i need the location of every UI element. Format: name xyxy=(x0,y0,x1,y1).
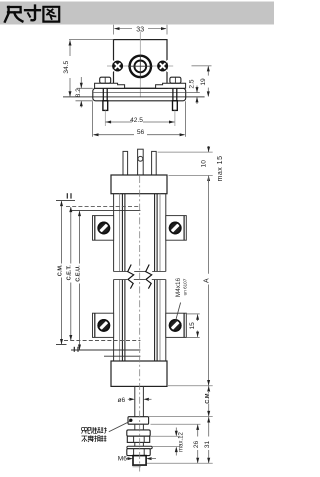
ring bottom extension xyxy=(151,423,201,425)
flange bottom ext left xyxy=(76,100,93,102)
svg-text:8.2: 8.2 xyxy=(75,88,82,97)
upper right screw xyxy=(169,222,182,235)
centerline extension dash right xyxy=(192,65,212,67)
mounting surface reference line xyxy=(63,96,205,98)
right bolt extension line xyxy=(174,110,176,126)
dim 2.5 lines xyxy=(186,86,200,105)
dim 33 lines+arrows xyxy=(114,25,168,35)
svg-text:M4x16: M4x16 xyxy=(175,277,182,297)
break lower cut line xyxy=(114,279,166,281)
dim 8.2 lines xyxy=(80,77,83,108)
middle terminal pin xyxy=(138,149,144,175)
housing body rect (top view) xyxy=(114,40,168,89)
shaft lines xyxy=(134,386,136,416)
dim 26 xyxy=(197,424,199,436)
top cap xyxy=(111,175,167,194)
dim A line xyxy=(208,176,210,274)
svg-text:2.5: 2.5 xyxy=(189,79,196,88)
break upper cut line xyxy=(114,271,166,273)
dim 31 xyxy=(208,417,210,437)
title text 尺寸图 (drawn strokes) xyxy=(5,6,59,22)
limit ring xyxy=(128,417,149,425)
svg-text:C.E.U.: C.E.U. xyxy=(75,265,81,282)
svg-text:C.E.T.: C.E.T. xyxy=(67,265,73,281)
cap top extension line xyxy=(169,175,213,177)
note leader xyxy=(109,421,130,431)
svg-text:max.12: max.12 xyxy=(179,432,185,452)
washer xyxy=(127,446,152,449)
note line1 界限螺钉 xyxy=(82,427,107,433)
svg-text:C.M.: C.M. xyxy=(205,391,211,403)
dim 19 lines xyxy=(207,66,210,97)
svg-text:31: 31 xyxy=(204,441,211,449)
stud bottom extension xyxy=(147,462,213,464)
M6 threaded stud xyxy=(133,456,146,465)
lower right bracket xyxy=(166,313,187,337)
CET dashed line bottom xyxy=(64,340,140,342)
left bolt stud below flange xyxy=(103,101,108,111)
left clamp plate xyxy=(95,83,125,88)
CEU leader line xyxy=(79,211,81,263)
CM leader line xyxy=(61,201,63,263)
lower right screw xyxy=(169,319,182,332)
upper left bracket xyxy=(93,216,114,241)
right screw circle (top view) xyxy=(157,60,168,71)
dim 10 lines xyxy=(207,146,210,183)
bushing crosshair xyxy=(128,65,153,67)
CM bottom tick xyxy=(56,344,67,346)
CEU solid line top xyxy=(71,210,140,212)
svg-text:34.5: 34.5 xyxy=(63,60,70,73)
ring top extension xyxy=(149,416,213,418)
upper right bracket xyxy=(166,216,187,241)
hex nut 1 xyxy=(127,430,150,436)
left bolt head xyxy=(100,77,111,83)
svg-text:10: 10 xyxy=(200,160,207,168)
limit ring dot xyxy=(129,419,132,422)
dim 42.5 line xyxy=(105,121,175,124)
dim max12 xyxy=(175,428,177,436)
svg-text:ø6: ø6 xyxy=(117,397,125,404)
bushing inner circle xyxy=(134,61,146,73)
CET leader line xyxy=(70,207,72,263)
left bolt shaft lines xyxy=(102,83,104,101)
nut mid extension xyxy=(150,435,180,437)
CEU solid line bottom xyxy=(71,349,140,351)
flange bar (rounded) xyxy=(93,88,186,101)
svg-text:un 6107: un 6107 xyxy=(182,278,187,295)
svg-text:19: 19 xyxy=(200,78,207,86)
extra travel line bottom xyxy=(104,355,140,357)
svg-text:42.5: 42.5 xyxy=(130,117,143,124)
cap bottom extension line xyxy=(167,385,213,387)
note line2 不要触摸 xyxy=(82,435,107,442)
left bolt extension line xyxy=(104,110,106,126)
body vertical lines lower xyxy=(114,280,166,362)
right clamp plate xyxy=(156,83,186,88)
right terminal pin xyxy=(152,151,157,175)
dim 56 lines xyxy=(93,101,186,137)
left terminal pin xyxy=(123,151,128,175)
bushing outer circle xyxy=(130,56,151,77)
washer top extension xyxy=(152,446,180,448)
lower left bracket xyxy=(93,313,114,337)
svg-text:max 15: max 15 xyxy=(217,156,224,182)
CET dashed line top xyxy=(66,206,140,208)
vertical centerline xyxy=(139,32,141,98)
right bolt shaft lines xyxy=(172,83,174,101)
dim 15 lines xyxy=(186,314,199,338)
dim phi6 arrows xyxy=(128,398,152,401)
svg-text:M6: M6 xyxy=(118,455,127,462)
hex nut 2 xyxy=(127,449,150,456)
dim 34.5 lines xyxy=(69,40,114,97)
dim CM right xyxy=(208,386,210,392)
flange inner line xyxy=(93,92,185,94)
right bolt head xyxy=(170,77,181,83)
front view dashed centerline xyxy=(139,176,141,472)
header grey title band xyxy=(0,2,274,25)
left screw circle (top view) xyxy=(112,60,123,71)
body vertical lines upper xyxy=(114,194,166,272)
svg-text:26: 26 xyxy=(193,441,200,449)
break zigzag left xyxy=(128,265,134,289)
middle pin circle xyxy=(138,156,143,161)
bottom zero marks xyxy=(73,347,75,352)
shaft between nuts xyxy=(134,424,136,430)
upper left screw xyxy=(97,222,110,235)
break zigzag right xyxy=(146,265,152,289)
M4x16 leader xyxy=(176,303,181,321)
svg-text:56: 56 xyxy=(137,129,145,136)
bottom cap xyxy=(111,361,167,386)
top zero marks xyxy=(66,193,68,198)
pin top extension line xyxy=(158,151,213,153)
lower left screw xyxy=(97,319,110,332)
svg-text:15: 15 xyxy=(189,322,196,330)
dim M6 arrows xyxy=(127,457,156,460)
CM top tick xyxy=(56,200,75,202)
right bolt stud below flange xyxy=(173,101,178,111)
svg-text:A: A xyxy=(204,278,211,283)
flange top ext left xyxy=(77,87,93,89)
horizontal centerline xyxy=(107,65,173,67)
svg-text:C.M.: C.M. xyxy=(57,264,63,276)
